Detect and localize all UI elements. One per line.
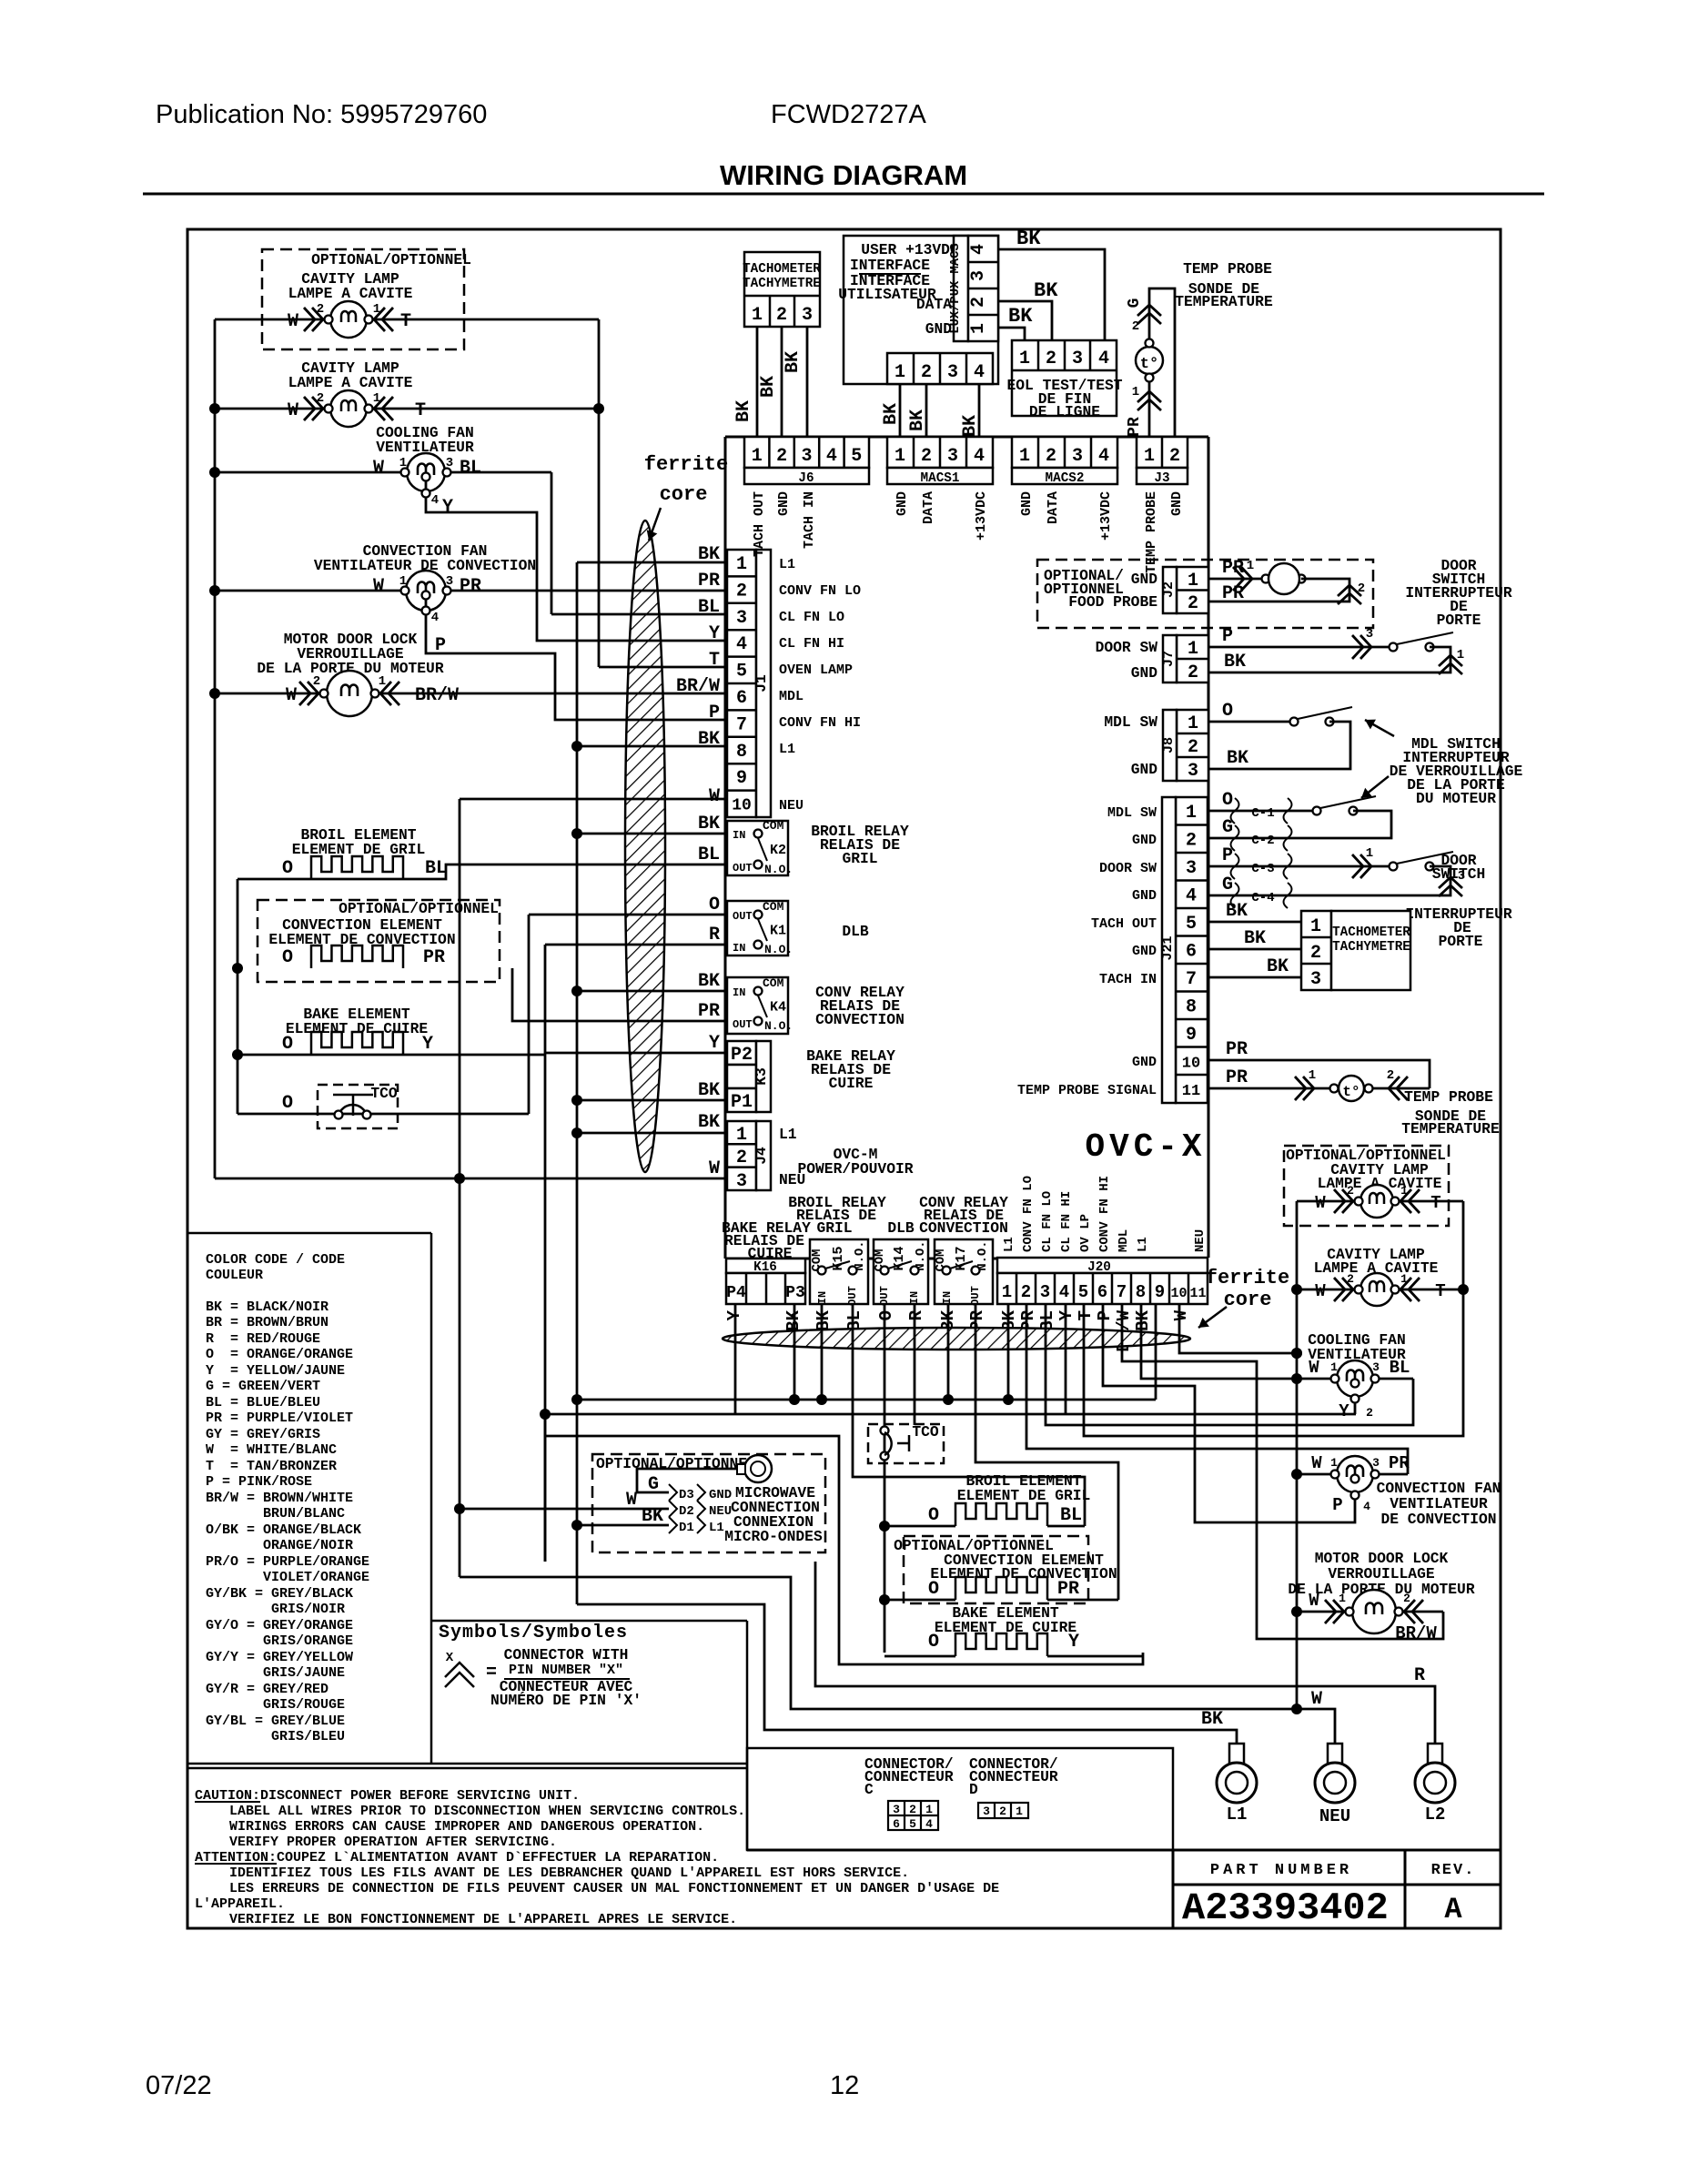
svg-text:FOOD PROBE: FOOD PROBE — [1068, 593, 1157, 611]
svg-text:GND: GND — [1132, 833, 1157, 848]
svg-text:9: 9 — [736, 768, 747, 789]
svg-text:DLB: DLB — [887, 1219, 915, 1237]
EOL test box — [1012, 340, 1117, 416]
svg-text:W: W — [373, 576, 384, 597]
svg-text:CONVECTION: CONVECTION — [919, 1219, 1008, 1237]
svg-text:PR: PR — [1389, 1453, 1410, 1473]
svg-text:T: T — [415, 400, 426, 421]
connector J7 — [1177, 635, 1208, 682]
wire cavity lamp 2 — [215, 408, 599, 410]
svg-text:O: O — [282, 1034, 293, 1055]
svg-text:1: 1 — [1310, 916, 1321, 937]
svg-text:1: 1 — [1188, 639, 1198, 660]
svg-text:Y: Y — [442, 497, 453, 518]
svg-text:t°: t° — [1140, 356, 1158, 373]
wire motor door lock right — [1297, 1611, 1443, 1613]
svg-text:4: 4 — [1363, 1500, 1370, 1513]
svg-text:C-1: C-1 — [1251, 806, 1274, 821]
svg-text:1: 1 — [736, 554, 747, 575]
svg-text:2: 2 — [968, 297, 989, 308]
svg-text:J7: J7 — [1161, 651, 1177, 667]
svg-text:OVEN LAMP: OVEN LAMP — [779, 662, 853, 678]
svg-text:3: 3 — [1372, 1360, 1380, 1374]
wire BL J20-3 to cooling fan — [1046, 1304, 1413, 1425]
svg-text:CONNECTOR WITH: CONNECTOR WITH — [504, 1646, 629, 1663]
relay K14 — [874, 1239, 928, 1304]
svg-text:BL: BL — [425, 858, 447, 879]
wire O TCO to K1 OUT — [238, 1113, 529, 1116]
svg-text:BK: BK — [1227, 748, 1248, 769]
svg-text:PR/O = PURPLE/ORANGE: PR/O = PURPLE/ORANGE — [206, 1554, 369, 1570]
svg-text:GRIS/ROUGE: GRIS/ROUGE — [206, 1697, 345, 1713]
svg-text:2: 2 — [1358, 581, 1365, 596]
svg-text:3: 3 — [736, 608, 747, 629]
svg-text:W: W — [373, 458, 384, 479]
svg-text:T: T — [1435, 1281, 1445, 1301]
broil element — [311, 856, 403, 879]
wire BL K15-NO to broil element — [853, 1304, 1085, 1526]
relay K3 P1 cell — [727, 1088, 756, 1112]
cavity lamp optional right dashed box — [1284, 1146, 1449, 1226]
connector MACS1 — [887, 437, 993, 468]
svg-text:4: 4 — [1059, 1282, 1069, 1302]
svg-text:2: 2 — [1046, 446, 1056, 467]
svg-text:3: 3 — [947, 446, 958, 467]
wire BK J20-8 to cooling fan W line — [1141, 1304, 1297, 1379]
svg-text:12: 12 — [830, 2071, 859, 2100]
wire BK J1-1 — [577, 561, 725, 564]
svg-text:OPTIONAL/OPTIONNEL: OPTIONAL/OPTIONNEL — [339, 900, 499, 917]
svg-text:X: X — [446, 1651, 454, 1665]
svg-text:D1: D1 — [679, 1521, 694, 1535]
svg-text:N.O.: N.O. — [764, 943, 793, 956]
svg-text:1: 1 — [1019, 349, 1030, 369]
svg-text:O: O — [282, 858, 293, 879]
J21 door switch circuit C-3 C-4 — [1208, 865, 1391, 868]
cavity lamp optional dashed box — [262, 249, 464, 349]
svg-text:BK: BK — [1201, 1709, 1223, 1730]
svg-text:1: 1 — [1330, 1456, 1338, 1470]
svg-text:J8: J8 — [1161, 737, 1177, 753]
svg-text:BK: BK — [698, 1112, 720, 1133]
svg-text:1: 1 — [895, 446, 905, 467]
svg-text:GND: GND — [1019, 491, 1035, 516]
svg-text:L1: L1 — [779, 1126, 797, 1143]
svg-text:OV LP: OV LP — [1078, 1214, 1093, 1252]
relay K15 — [810, 1239, 868, 1304]
svg-text:R = RED/ROUGE: R = RED/ROUGE — [206, 1331, 320, 1347]
svg-text:O: O — [928, 1505, 939, 1526]
wire BK to L1 terminal — [577, 1604, 1237, 1763]
connector J21 — [1176, 797, 1208, 1103]
wire BK J20-1 to bus — [1007, 1304, 1010, 1400]
svg-text:DLB: DLB — [842, 923, 869, 940]
svg-text:4: 4 — [1098, 349, 1109, 369]
svg-text:P1: P1 — [731, 1092, 753, 1113]
svg-text:P = PINK/ROSE: P = PINK/ROSE — [206, 1474, 312, 1490]
svg-text:2: 2 — [1403, 1592, 1410, 1605]
tach wires J21 to tachometer — [1208, 921, 1301, 924]
svg-text:PR: PR — [698, 1001, 720, 1022]
svg-text:=: = — [486, 1663, 497, 1683]
svg-text:GRIS/JAUNE: GRIS/JAUNE — [206, 1665, 345, 1681]
connector J3 — [1137, 437, 1188, 468]
OVC-X board outline — [724, 437, 727, 1259]
svg-text:2: 2 — [1186, 831, 1197, 852]
wire O K14 through TCO — [884, 1304, 886, 1653]
svg-text:TCO: TCO — [912, 1423, 939, 1441]
svg-text:3: 3 — [1310, 969, 1321, 990]
svg-text:1: 1 — [373, 302, 380, 317]
microwave D3 pin — [669, 1484, 677, 1501]
svg-text:CONV FN LO: CONV FN LO — [1021, 1176, 1036, 1252]
part number table — [747, 1849, 1501, 1852]
svg-text:3: 3 — [801, 446, 812, 467]
svg-text:TACH OUT: TACH OUT — [1091, 916, 1157, 932]
svg-text:GND: GND — [709, 1488, 732, 1502]
svg-text:2: 2 — [1021, 1282, 1031, 1302]
svg-text:COM: COM — [763, 976, 784, 990]
wire Y cooling fan to J1-4 — [426, 495, 725, 641]
svg-text:TACHOMETER: TACHOMETER — [1332, 925, 1410, 940]
svg-text:1: 1 — [968, 323, 989, 334]
svg-text:IN: IN — [733, 829, 745, 842]
wire BR/W J20-7 to motor door lock — [1122, 1304, 1443, 1639]
svg-text:2: 2 — [1347, 1184, 1354, 1198]
svg-text:10: 10 — [732, 797, 752, 815]
svg-text:COLOR CODE / CODE: COLOR CODE / CODE — [206, 1252, 345, 1268]
svg-text:PART NUMBER: PART NUMBER — [1210, 1862, 1352, 1879]
svg-text:OVC-X: OVC-X — [1085, 1128, 1206, 1166]
svg-text:T: T — [400, 311, 411, 332]
svg-text:TEMP PROBE: TEMP PROBE — [1183, 260, 1272, 278]
svg-text:Y: Y — [1339, 1401, 1349, 1421]
svg-text:2: 2 — [1188, 737, 1198, 758]
svg-text:O = ORANGE/ORANGE: O = ORANGE/ORANGE — [206, 1347, 353, 1362]
svg-text:10: 10 — [1170, 1286, 1187, 1301]
svg-text:4: 4 — [974, 446, 985, 467]
svg-text:OUT: OUT — [733, 910, 753, 923]
svg-text:07/22: 07/22 — [146, 2071, 212, 2100]
wire BK to microwave D1 — [577, 1524, 669, 1527]
relay K2 — [727, 821, 788, 875]
svg-text:BK = BLACK/NOIR: BK = BLACK/NOIR — [206, 1299, 329, 1315]
svg-text:W: W — [709, 786, 720, 807]
wire PR convection element to K4 OUT — [512, 968, 727, 1021]
wire Y K3 P2 — [545, 1052, 725, 1055]
svg-text:7: 7 — [736, 714, 747, 735]
svg-text:OUT: OUT — [733, 1018, 753, 1031]
svg-text:2: 2 — [1387, 1068, 1394, 1083]
svg-text:P: P — [435, 635, 446, 656]
svg-text:BL: BL — [1390, 1358, 1410, 1378]
svg-text:3: 3 — [893, 1803, 900, 1816]
wire PR J20-2 to convection fan — [1026, 1304, 1408, 1474]
svg-text:1: 1 — [1188, 713, 1198, 734]
svg-text:BL: BL — [460, 458, 481, 479]
svg-text:1: 1 — [399, 574, 407, 589]
svg-text:10: 10 — [1182, 1056, 1200, 1073]
svg-text:MDL: MDL — [779, 689, 804, 704]
svg-text:3: 3 — [1072, 446, 1083, 467]
wire W bottom bus to J4 — [215, 1178, 725, 1180]
temp probe thermometer 2 — [1339, 1076, 1364, 1101]
svg-text:CL FN HI: CL FN HI — [779, 636, 844, 652]
svg-text:O: O — [928, 1632, 939, 1653]
svg-text:GRIL: GRIL — [816, 1219, 852, 1237]
svg-text:C-2: C-2 — [1251, 834, 1274, 848]
svg-text:BL: BL — [698, 597, 720, 618]
svg-text:OUT: OUT — [878, 1286, 891, 1306]
svg-text:IN: IN — [733, 986, 745, 999]
svg-text:P2: P2 — [731, 1045, 753, 1066]
svg-text:O/BK = ORANGE/BLACK: O/BK = ORANGE/BLACK — [206, 1522, 361, 1538]
svg-text:5: 5 — [851, 446, 862, 467]
svg-text:GND: GND — [925, 320, 953, 338]
svg-text:1: 1 — [1019, 446, 1030, 467]
svg-text:K4: K4 — [770, 1000, 786, 1016]
relay K17 — [935, 1239, 993, 1304]
wire BK K17-IN to bus — [947, 1304, 950, 1400]
svg-text:3: 3 — [446, 456, 453, 470]
svg-text:GND: GND — [1131, 664, 1158, 682]
svg-text:1: 1 — [373, 391, 380, 406]
svg-text:BR/W: BR/W — [1395, 1623, 1437, 1643]
svg-text:GND: GND — [1169, 491, 1185, 516]
symbols box — [431, 1620, 747, 1623]
svg-text:PR = PURPLE/VIOLET: PR = PURPLE/VIOLET — [206, 1410, 353, 1426]
svg-text:BR = BROWN/BRUN: BR = BROWN/BRUN — [206, 1315, 329, 1330]
svg-text:8: 8 — [1136, 1282, 1146, 1302]
svg-text:1: 1 — [752, 305, 763, 326]
wire Y K16-P4 down — [734, 1304, 737, 1414]
svg-text:W = WHITE/BLANC: W = WHITE/BLANC — [206, 1442, 337, 1458]
svg-text:GND: GND — [1131, 761, 1158, 778]
svg-text:3: 3 — [1188, 761, 1198, 782]
svg-text:TEMP PROBE: TEMP PROBE — [1144, 491, 1159, 573]
wire cavity lamp right 2 — [1297, 1289, 1463, 1291]
temp probe chevron 2 — [1137, 313, 1161, 324]
wire Y bake element — [238, 1054, 545, 1057]
svg-text:W: W — [626, 1490, 637, 1511]
svg-text:DE LIGNE: DE LIGNE — [1029, 403, 1100, 420]
svg-text:P: P — [1222, 626, 1233, 647]
svg-text:W: W — [1315, 1281, 1326, 1301]
svg-text:BK: BK — [881, 403, 902, 425]
convection element dashed box — [258, 900, 500, 982]
svg-text:C-4: C-4 — [1251, 891, 1274, 905]
svg-text:J1: J1 — [753, 674, 770, 693]
svg-text:REV.: REV. — [1431, 1862, 1476, 1879]
svg-text:BK: BK — [698, 544, 720, 565]
svg-text:DATA: DATA — [916, 296, 952, 313]
svg-text:2: 2 — [1188, 662, 1198, 683]
svg-text:MICRO-ONDES: MICRO-ONDES — [724, 1528, 823, 1545]
svg-text:O: O — [1222, 790, 1233, 811]
color code box — [187, 1232, 431, 1235]
svg-text:CONV FN HI: CONV FN HI — [1097, 1176, 1112, 1252]
svg-text:BK: BK — [783, 351, 804, 373]
svg-text:SWITCH: SWITCH — [1432, 865, 1486, 883]
svg-text:O: O — [709, 895, 720, 915]
svg-text:BR/W: BR/W — [415, 685, 459, 706]
wire Y cooling fan stub — [1354, 1402, 1357, 1414]
svg-text:MDL: MDL — [1117, 1229, 1131, 1252]
svg-text:IDENTIFIEZ TOUS LES FILS AVANT: IDENTIFIEZ TOUS LES FILS AVANT DE LES DE… — [229, 1865, 909, 1881]
svg-text:TEMPERATURE: TEMPERATURE — [1175, 293, 1273, 310]
svg-text:4: 4 — [1186, 886, 1197, 907]
svg-text:1: 1 — [1016, 1805, 1023, 1818]
svg-text:GY/R = GREY/RED: GY/R = GREY/RED — [206, 1682, 329, 1697]
svg-text:4: 4 — [925, 1817, 933, 1831]
svg-text:CONV FN HI: CONV FN HI — [779, 715, 861, 731]
svg-text:PR: PR — [1226, 1039, 1248, 1060]
food probe dashed box — [1037, 560, 1373, 628]
svg-text:6: 6 — [893, 1817, 900, 1831]
svg-text:4: 4 — [431, 611, 439, 625]
svg-text:CONNECTEUR: CONNECTEUR — [969, 1768, 1058, 1785]
wire W left rail — [214, 319, 217, 1178]
wire O left element rail — [237, 879, 239, 1114]
svg-text:W: W — [1171, 1309, 1191, 1320]
caution box top edge — [187, 1767, 747, 1770]
svg-text:WIRINGS ERRORS CAN CAUSE IMPRO: WIRINGS ERRORS CAN CAUSE IMPROPER AND DA… — [229, 1819, 704, 1835]
wire PR K17-OUT to convection element — [975, 1304, 1118, 1600]
svg-text:BK: BK — [907, 409, 928, 431]
connector MACS2 — [1012, 437, 1117, 468]
svg-text:VIOLET/ORANGE: VIOLET/ORANGE — [206, 1570, 369, 1585]
svg-text:K2: K2 — [770, 843, 786, 858]
svg-text:O: O — [1222, 701, 1233, 722]
svg-text:DOOR SW: DOOR SW — [1099, 861, 1157, 876]
svg-text:BK: BK — [758, 376, 779, 398]
svg-text:1: 1 — [895, 362, 905, 383]
svg-text:BK: BK — [733, 400, 754, 422]
svg-text:2: 2 — [921, 362, 932, 383]
svg-text:7: 7 — [1117, 1282, 1127, 1302]
microwave connection dashed box — [592, 1454, 825, 1552]
svg-text:2: 2 — [1046, 349, 1056, 369]
svg-text:BRUN/BLANC: BRUN/BLANC — [206, 1506, 345, 1522]
svg-text:L1: L1 — [779, 557, 795, 572]
main border — [187, 229, 1501, 1928]
svg-text:N.O.: N.O. — [764, 1019, 793, 1033]
svg-text:3: 3 — [802, 305, 813, 326]
svg-text:8: 8 — [736, 742, 747, 763]
svg-text:G: G — [1222, 875, 1233, 895]
svg-text:GY = GREY/GRIS: GY = GREY/GRIS — [206, 1427, 320, 1442]
wire T J20-5 to cavity lamps — [1084, 1201, 1463, 1436]
svg-text:BK: BK — [698, 814, 720, 834]
svg-text:NUMÉRO DE PIN 'X': NUMÉRO DE PIN 'X' — [490, 1692, 642, 1709]
svg-text:GND: GND — [776, 491, 792, 516]
J21 MDL switch circuit C-1 C-2 — [1208, 810, 1315, 813]
cavity lamp 2 — [330, 390, 367, 427]
svg-text:OUT: OUT — [846, 1286, 859, 1306]
svg-text:3: 3 — [968, 270, 989, 281]
wire motor door lock to J1-6 — [215, 693, 725, 695]
svg-text:PR: PR — [1126, 417, 1144, 437]
wire cavity lamp right 1 — [1297, 1200, 1463, 1203]
svg-text:Symbols/Symboles: Symbols/Symboles — [439, 1623, 628, 1643]
svg-text:TEMP PROBE SIGNAL: TEMP PROBE SIGNAL — [1017, 1083, 1157, 1098]
svg-text:A23393402: A23393402 — [1182, 1886, 1389, 1930]
svg-text:T: T — [1076, 1310, 1096, 1320]
svg-text:P4: P4 — [726, 1284, 746, 1302]
svg-text:Publication No: 5995729760: Publication No: 5995729760 — [156, 100, 487, 129]
svg-text:ELEMENT DE GRIL: ELEMENT DE GRIL — [957, 1487, 1091, 1504]
svg-text:1: 1 — [752, 446, 763, 467]
svg-text:GND: GND — [895, 491, 910, 516]
connector J20 — [997, 1258, 1208, 1273]
svg-text:BR/W: BR/W — [676, 676, 720, 697]
svg-text:J6: J6 — [798, 471, 814, 486]
svg-text:ELEMENT DE CONVECTION: ELEMENT DE CONVECTION — [930, 1565, 1117, 1582]
svg-text:DATA: DATA — [921, 491, 936, 524]
bake element — [311, 1032, 403, 1055]
connector J1 — [727, 550, 756, 817]
svg-text:W: W — [286, 685, 297, 706]
bus L1 BK bottom — [577, 1399, 1156, 1401]
svg-text:BK: BK — [814, 1309, 834, 1330]
svg-text:OUT: OUT — [733, 862, 753, 875]
svg-text:K1: K1 — [770, 924, 786, 939]
svg-text:L'APPAREIL.: L'APPAREIL. — [195, 1896, 285, 1912]
svg-text:P: P — [1095, 1310, 1115, 1320]
svg-text:L1: L1 — [779, 742, 795, 757]
svg-text:2: 2 — [736, 1148, 747, 1168]
tachometer box top — [744, 252, 820, 327]
motor door lock right M6 — [1352, 1590, 1396, 1633]
wire R K14 down — [914, 1304, 916, 1425]
svg-text:L1: L1 — [1136, 1237, 1150, 1252]
svg-text:CL FN LO: CL FN LO — [1040, 1191, 1055, 1252]
svg-text:L1: L1 — [1227, 1805, 1248, 1825]
svg-text:1: 1 — [1247, 559, 1254, 573]
svg-text:COM: COM — [763, 900, 784, 914]
svg-text:BR/W = BROWN/WHITE: BR/W = BROWN/WHITE — [206, 1491, 353, 1506]
svg-text:POWER/POUVOIR: POWER/POUVOIR — [797, 1160, 913, 1178]
wire W J20-11 to W rail — [1179, 1304, 1297, 1353]
wire W J1-10 — [460, 798, 725, 801]
svg-text:+13VDC: +13VDC — [974, 491, 989, 541]
svg-text:4: 4 — [736, 634, 747, 655]
svg-text:CONVECTION: CONVECTION — [815, 1011, 905, 1028]
cooling fan right M4 — [1337, 1360, 1373, 1397]
svg-text:DATA: DATA — [1046, 491, 1061, 524]
relay K16 — [726, 1259, 805, 1273]
svg-text:LES ERREURS DE CONNECTION DE F: LES ERREURS DE CONNECTION DE FILS PEUVEN… — [229, 1881, 999, 1896]
svg-text:R: R — [906, 1309, 926, 1320]
convection element 2 dashed box — [904, 1536, 1088, 1603]
svg-text:PIN NUMBER "X": PIN NUMBER "X" — [509, 1663, 623, 1678]
svg-text:G: G — [1126, 298, 1144, 308]
svg-text:GND: GND — [1132, 888, 1157, 904]
wire BK bus vertical — [576, 562, 579, 1604]
node W bus junctions — [209, 403, 220, 414]
wire cooling fan main — [215, 471, 551, 474]
svg-text:BK: BK — [1016, 227, 1041, 250]
svg-text:3: 3 — [736, 1171, 747, 1192]
svg-text:DE CONVECTION: DE CONVECTION — [1380, 1511, 1496, 1528]
svg-text:t°: t° — [1342, 1084, 1359, 1100]
wire BL to J1-3 — [551, 472, 553, 614]
svg-text:1: 1 — [379, 674, 386, 689]
svg-text:2: 2 — [776, 446, 787, 467]
svg-text:Y = YELLOW/JAUNE: Y = YELLOW/JAUNE — [206, 1363, 345, 1379]
svg-text:GY/BK = GREY/BLACK: GY/BK = GREY/BLACK — [206, 1586, 353, 1602]
svg-text:4: 4 — [431, 493, 439, 508]
